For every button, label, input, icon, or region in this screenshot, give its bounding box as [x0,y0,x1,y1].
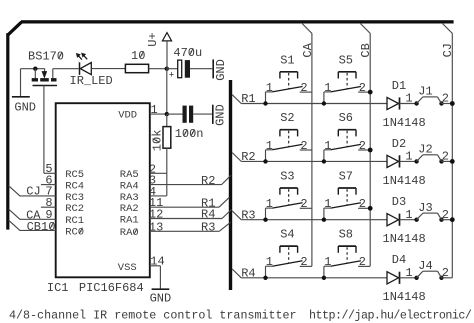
svg-text:S6: S6 [339,111,353,125]
svg-text:GND: GND [214,59,228,81]
svg-text:RA4: RA4 [120,181,139,193]
svg-text:1N4148: 1N4148 [383,174,426,188]
svg-text:2: 2 [359,197,366,211]
svg-text:RA2: RA2 [120,203,139,215]
svg-text:4/8-channel IR remote control: 4/8-channel IR remote control transmitte… [9,309,297,323]
svg-text:14: 14 [150,255,164,269]
svg-text:http://jap.hu/electronic/: http://jap.hu/electronic/ [309,309,472,323]
svg-text:D2: D2 [392,137,406,151]
svg-text:10k: 10k [150,130,164,152]
svg-text:RC4: RC4 [65,181,84,193]
svg-text:IC1: IC1 [47,281,69,295]
svg-text:2: 2 [300,81,307,95]
svg-text:D1: D1 [392,79,406,93]
svg-text:RA5: RA5 [120,169,139,181]
svg-text:J3: J3 [418,201,432,215]
svg-text:J1: J1 [418,85,432,99]
svg-text:2: 2 [300,197,307,211]
svg-text:VDD: VDD [118,110,137,122]
svg-text:2: 2 [359,139,366,153]
svg-text:1: 1 [405,150,412,164]
svg-text:2: 2 [359,81,366,95]
svg-text:RC3: RC3 [65,192,84,204]
svg-text:S1: S1 [280,53,294,67]
svg-text:S8: S8 [339,228,353,242]
svg-text:1: 1 [324,81,331,95]
svg-text:R4: R4 [241,266,255,280]
svg-text:1: 1 [151,103,158,117]
svg-text:CA: CA [301,42,315,57]
svg-text:470u: 470u [173,46,202,60]
svg-text:RC5: RC5 [65,169,84,181]
svg-text:S4: S4 [280,228,294,242]
svg-text:1: 1 [266,255,273,269]
svg-text:1: 1 [266,197,273,211]
svg-text:J4: J4 [418,259,432,273]
svg-text:GND: GND [150,292,172,306]
svg-text:BS170: BS170 [28,50,64,64]
svg-text:10: 10 [131,49,145,63]
svg-text:RC2: RC2 [65,203,84,215]
svg-text:1: 1 [405,92,412,106]
svg-text:RC0: RC0 [65,226,84,238]
svg-text:RA1: RA1 [120,214,139,226]
svg-text:D4: D4 [392,253,406,267]
svg-text:S2: S2 [280,111,294,125]
svg-text:PIC16F684: PIC16F684 [79,281,144,295]
svg-text:J2: J2 [418,143,432,157]
svg-text:R1: R1 [241,92,255,106]
svg-text:D3: D3 [392,195,406,209]
svg-text:1N4148: 1N4148 [383,290,426,304]
svg-text:1N4148: 1N4148 [383,232,426,246]
svg-text:CJ: CJ [26,184,40,198]
svg-text:R3: R3 [201,221,215,235]
svg-text:CJ: CJ [441,43,455,57]
svg-text:GND: GND [214,104,228,126]
svg-text:S3: S3 [280,170,294,184]
svg-text:VSS: VSS [118,262,137,274]
svg-text:1: 1 [266,81,273,95]
svg-text:RA3: RA3 [120,192,139,204]
svg-text:S7: S7 [339,170,353,184]
svg-text:S5: S5 [339,53,353,67]
svg-text:R2: R2 [241,150,255,164]
svg-text:R2: R2 [201,174,215,188]
svg-text:1N4148: 1N4148 [383,116,426,130]
svg-text:1: 1 [324,139,331,153]
svg-text:IR_LED: IR_LED [70,74,113,88]
svg-text:1: 1 [405,266,412,280]
svg-text:100n: 100n [175,127,204,141]
svg-text:13: 13 [149,220,163,234]
svg-text:2: 2 [359,255,366,269]
svg-text:CB: CB [359,43,373,57]
svg-text:RA0: RA0 [120,227,139,239]
svg-text:1: 1 [324,197,331,211]
svg-text:2: 2 [300,139,307,153]
svg-text:1: 1 [266,139,273,153]
svg-text:U+: U+ [146,32,160,46]
svg-text:1: 1 [405,208,412,222]
svg-text:2: 2 [300,255,307,269]
svg-text:GND: GND [14,101,36,115]
svg-text:+: + [169,70,174,80]
svg-text:1: 1 [324,255,331,269]
svg-text:R3: R3 [241,208,255,222]
